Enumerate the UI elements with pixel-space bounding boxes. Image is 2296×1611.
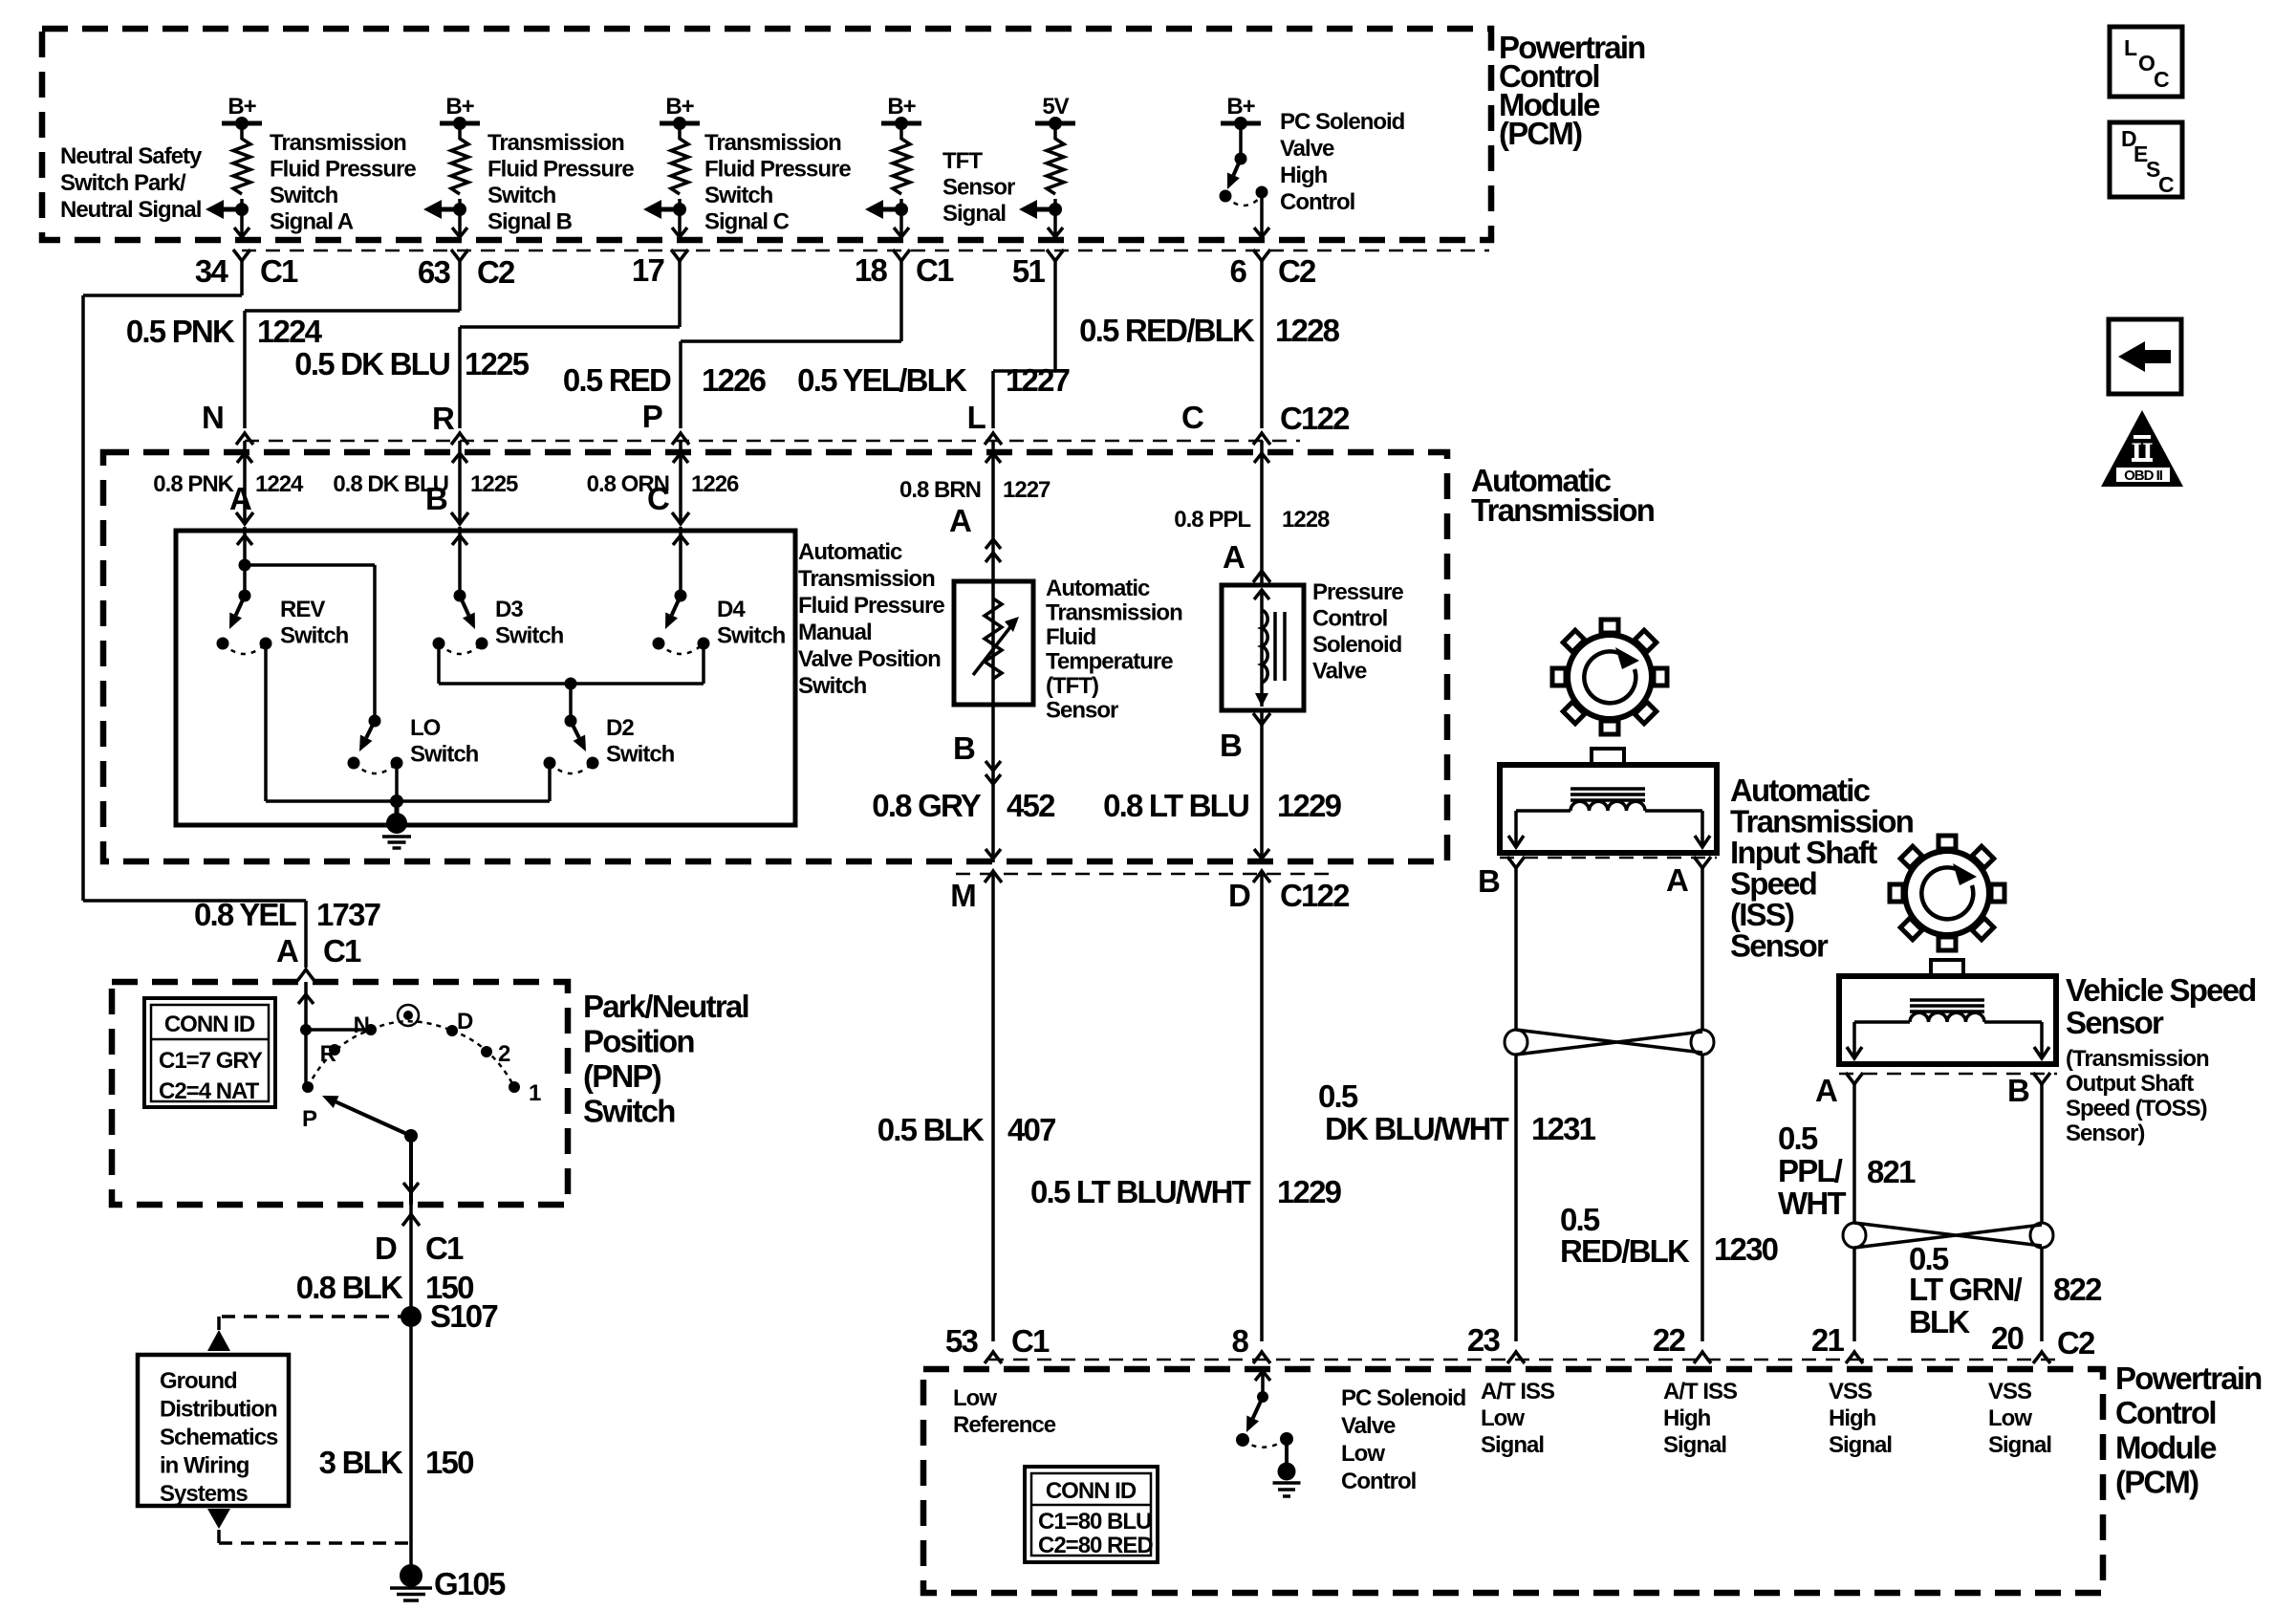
svg-text:0.5 RED/BLK: 0.5 RED/BLK	[1079, 313, 1255, 348]
svg-text:A: A	[1666, 862, 1688, 898]
svg-text:A: A	[229, 481, 251, 516]
svg-text:3 BLK: 3 BLK	[319, 1445, 403, 1480]
svg-text:Park/Neutral: Park/Neutral	[583, 989, 748, 1024]
svg-text:Low: Low	[1481, 1405, 1525, 1431]
svg-text:G105: G105	[434, 1566, 506, 1601]
svg-text:PC Solenoid: PC Solenoid	[1341, 1385, 1466, 1411]
svg-text:C: C	[647, 481, 669, 516]
svg-text:Signal: Signal	[1481, 1432, 1544, 1458]
svg-text:18: 18	[855, 252, 888, 288]
svg-text:C2: C2	[477, 254, 515, 290]
svg-text:TFT: TFT	[942, 148, 983, 174]
svg-text:0.5 RED: 0.5 RED	[563, 362, 671, 398]
svg-text:CONN ID: CONN ID	[164, 1012, 255, 1037]
svg-text:2: 2	[498, 1041, 510, 1067]
svg-text:Switch: Switch	[280, 623, 349, 649]
svg-text:Position: Position	[583, 1024, 694, 1059]
svg-text:Fluid Pressure: Fluid Pressure	[270, 157, 416, 183]
svg-text:1227: 1227	[1003, 477, 1051, 503]
svg-text:Manual: Manual	[798, 620, 872, 645]
svg-text:0.8 PNK: 0.8 PNK	[153, 471, 234, 497]
svg-text:Automatic: Automatic	[798, 539, 902, 565]
svg-text:Signal B: Signal B	[487, 209, 573, 235]
svg-text:Signal C: Signal C	[704, 209, 790, 235]
svg-text:B: B	[2007, 1073, 2029, 1108]
svg-text:452: 452	[1007, 788, 1055, 823]
svg-text:in Wiring: in Wiring	[160, 1453, 249, 1479]
svg-text:0.8 YEL: 0.8 YEL	[194, 897, 297, 932]
svg-text:LO: LO	[410, 715, 441, 741]
svg-text:Switch: Switch	[798, 673, 867, 699]
svg-text:Low: Low	[953, 1385, 997, 1411]
svg-text:PPL/: PPL/	[1778, 1153, 1843, 1188]
svg-text:17: 17	[632, 252, 664, 288]
svg-text:Control: Control	[2115, 1395, 2216, 1430]
svg-text:Systems: Systems	[160, 1481, 248, 1507]
svg-text:Input Shaft: Input Shaft	[1730, 835, 1877, 870]
svg-text:Solenoid: Solenoid	[1312, 632, 1402, 658]
svg-text:21: 21	[1811, 1322, 1845, 1358]
svg-text:C2=4 NAT: C2=4 NAT	[159, 1078, 260, 1104]
svg-text:5V: 5V	[1042, 94, 1069, 120]
svg-text:C1: C1	[1011, 1323, 1050, 1359]
svg-text:Transmission: Transmission	[487, 130, 624, 156]
svg-text:D: D	[1228, 878, 1250, 913]
svg-text:C1=80 BLU: C1=80 BLU	[1038, 1509, 1151, 1535]
svg-text:C1: C1	[260, 253, 298, 289]
svg-text:Signal: Signal	[1829, 1432, 1892, 1458]
svg-text:Switch: Switch	[606, 742, 675, 768]
svg-text:C2=80 RED: C2=80 RED	[1038, 1533, 1153, 1558]
svg-text:CONN ID: CONN ID	[1046, 1478, 1137, 1504]
svg-text:0.5 DK BLU: 0.5 DK BLU	[294, 346, 449, 381]
svg-text:0.5 BLK: 0.5 BLK	[877, 1112, 985, 1147]
svg-text:1231: 1231	[1531, 1111, 1596, 1146]
svg-text:Switch: Switch	[270, 183, 338, 208]
svg-text:Pressure: Pressure	[1312, 579, 1403, 605]
svg-text:Sensor: Sensor	[1046, 698, 1118, 724]
svg-text:B: B	[1220, 728, 1242, 763]
svg-text:C122: C122	[1280, 401, 1350, 436]
svg-text:(PCM): (PCM)	[1499, 116, 1582, 151]
svg-text:Schematics: Schematics	[160, 1425, 278, 1450]
svg-text:C1=7 GRY: C1=7 GRY	[159, 1048, 263, 1074]
svg-text:1226: 1226	[702, 362, 767, 398]
svg-text:A: A	[949, 503, 971, 538]
svg-text:OBD II: OBD II	[2124, 468, 2163, 484]
svg-text:DK BLU/WHT: DK BLU/WHT	[1325, 1111, 1509, 1146]
svg-text:Fluid: Fluid	[1046, 624, 1096, 650]
svg-text:0.5 PNK: 0.5 PNK	[126, 314, 235, 349]
svg-text:C122: C122	[1280, 878, 1350, 913]
svg-text:Sensor: Sensor	[942, 175, 1015, 201]
svg-text:1226: 1226	[691, 471, 739, 497]
svg-text:P: P	[642, 399, 662, 434]
svg-text:WHT: WHT	[1778, 1186, 1846, 1221]
svg-text:Signal: Signal	[1988, 1432, 2051, 1458]
svg-text:LT GRN/: LT GRN/	[1909, 1272, 2023, 1307]
svg-text:Distribution: Distribution	[160, 1397, 277, 1423]
svg-text:C1: C1	[323, 933, 361, 969]
svg-text:D2: D2	[606, 715, 634, 741]
svg-text:Transmission: Transmission	[270, 130, 406, 156]
svg-text:D: D	[457, 1009, 473, 1034]
svg-text:S107: S107	[430, 1298, 497, 1334]
svg-text:Switch: Switch	[495, 623, 564, 649]
svg-text:Switch Park/: Switch Park/	[60, 170, 186, 196]
svg-text:Powertrain: Powertrain	[2115, 1361, 2262, 1396]
svg-text:C: C	[2154, 67, 2169, 92]
svg-text:A: A	[1223, 539, 1245, 575]
svg-text:Transmission: Transmission	[1046, 600, 1182, 626]
svg-text:Neutral Safety: Neutral Safety	[60, 143, 203, 169]
svg-text:Transmission: Transmission	[1471, 492, 1655, 528]
svg-text:0.5: 0.5	[1560, 1202, 1600, 1237]
svg-text:Low: Low	[1341, 1441, 1385, 1467]
svg-text:Neutral Signal: Neutral Signal	[60, 197, 201, 223]
svg-text:0.5 YEL/BLK: 0.5 YEL/BLK	[797, 362, 967, 398]
svg-text:0.5 LT BLU/WHT: 0.5 LT BLU/WHT	[1030, 1174, 1251, 1209]
svg-text:1737: 1737	[316, 897, 380, 932]
svg-text:B+: B+	[887, 94, 916, 120]
svg-text:R: R	[432, 401, 455, 436]
svg-text:1228: 1228	[1275, 313, 1340, 348]
svg-text:High: High	[1280, 163, 1328, 188]
svg-text:Speed (TOSS): Speed (TOSS)	[2066, 1096, 2207, 1121]
svg-text:Fluid Pressure: Fluid Pressure	[487, 157, 634, 183]
svg-text:Fluid Pressure: Fluid Pressure	[798, 593, 944, 619]
svg-text:O: O	[2138, 51, 2155, 76]
svg-text:Valve: Valve	[1312, 659, 1367, 685]
svg-text:Automatic: Automatic	[1730, 773, 1871, 808]
svg-text:D: D	[375, 1230, 397, 1266]
svg-text:B+: B+	[665, 94, 694, 120]
svg-text:0.8 LT BLU: 0.8 LT BLU	[1103, 788, 1248, 823]
svg-text:0.8 GRY: 0.8 GRY	[872, 788, 982, 823]
svg-text:0.5: 0.5	[1318, 1078, 1358, 1114]
svg-text:Transmission: Transmission	[704, 130, 841, 156]
svg-text:Signal A: Signal A	[270, 209, 354, 235]
svg-text:Module: Module	[2115, 1429, 2217, 1465]
svg-text:Switch: Switch	[487, 183, 556, 208]
svg-text:II: II	[2131, 437, 2153, 468]
svg-text:A: A	[276, 933, 298, 969]
svg-text:Transmission: Transmission	[798, 566, 935, 592]
svg-text:Switch: Switch	[410, 742, 479, 768]
svg-text:1228: 1228	[1282, 507, 1330, 533]
svg-text:Reference: Reference	[953, 1412, 1056, 1438]
svg-text:1224: 1224	[257, 314, 323, 349]
svg-text:Control: Control	[1341, 1469, 1416, 1494]
svg-text:23: 23	[1467, 1322, 1501, 1358]
svg-text:Fluid Pressure: Fluid Pressure	[704, 157, 851, 183]
svg-text:A/T ISS: A/T ISS	[1663, 1379, 1738, 1404]
svg-text:0.5: 0.5	[1778, 1121, 1818, 1156]
svg-text:Sensor): Sensor)	[2066, 1121, 2144, 1146]
svg-text:RED/BLK: RED/BLK	[1560, 1233, 1690, 1269]
svg-text:Automatic: Automatic	[1046, 576, 1150, 601]
svg-text:D4: D4	[717, 597, 746, 622]
svg-text:0.8 BLK: 0.8 BLK	[296, 1270, 403, 1305]
svg-text:(Transmission: (Transmission	[2066, 1046, 2209, 1072]
svg-text:51: 51	[1012, 253, 1046, 289]
svg-text:(ISS): (ISS)	[1730, 897, 1794, 932]
svg-text:VSS: VSS	[1988, 1379, 2032, 1404]
svg-text:VSS: VSS	[1829, 1379, 1873, 1404]
svg-text:1225: 1225	[465, 346, 530, 381]
svg-text:C: C	[2158, 172, 2174, 197]
svg-text:1229: 1229	[1277, 1174, 1342, 1209]
svg-text:C1: C1	[425, 1230, 464, 1266]
svg-text:N: N	[354, 1012, 369, 1038]
svg-text:Control: Control	[1312, 606, 1387, 632]
svg-text:Switch: Switch	[717, 623, 786, 649]
svg-text:1224: 1224	[255, 471, 304, 497]
svg-text:(PCM): (PCM)	[2115, 1465, 2199, 1500]
svg-text:1227: 1227	[1006, 362, 1070, 398]
svg-text:Sensor: Sensor	[2066, 1005, 2164, 1040]
svg-text:63: 63	[418, 254, 451, 290]
svg-text:20: 20	[1991, 1320, 2024, 1356]
svg-text:Vehicle Speed: Vehicle Speed	[2066, 972, 2256, 1008]
svg-text:P: P	[302, 1106, 317, 1132]
svg-text:High: High	[1829, 1405, 1876, 1431]
svg-text:BLK: BLK	[1909, 1304, 1970, 1339]
svg-text:R: R	[320, 1041, 336, 1067]
svg-text:B+: B+	[227, 94, 256, 120]
svg-text:M: M	[950, 878, 975, 913]
svg-text:1229: 1229	[1277, 788, 1342, 823]
svg-text:B: B	[953, 730, 975, 766]
svg-text:Valve Position: Valve Position	[798, 646, 941, 672]
svg-text:Sensor: Sensor	[1730, 928, 1829, 964]
svg-text:L: L	[2124, 35, 2137, 60]
svg-text:8: 8	[1231, 1323, 1248, 1359]
svg-text:Switch: Switch	[583, 1094, 675, 1129]
svg-text:1230: 1230	[1714, 1231, 1778, 1267]
svg-text:Switch: Switch	[704, 183, 773, 208]
svg-text:53: 53	[945, 1323, 979, 1359]
svg-text:822: 822	[2053, 1272, 2102, 1307]
svg-text:821: 821	[1867, 1154, 1916, 1189]
svg-text:C2: C2	[1278, 253, 1316, 289]
svg-text:High: High	[1663, 1405, 1711, 1431]
svg-text:Transmission: Transmission	[1730, 804, 1914, 839]
svg-text:22: 22	[1653, 1322, 1686, 1358]
svg-text:(TFT): (TFT)	[1046, 673, 1098, 699]
svg-text:Output Shaft: Output Shaft	[2066, 1071, 2194, 1097]
svg-text:Speed: Speed	[1730, 866, 1816, 902]
svg-text:C: C	[1181, 400, 1203, 435]
svg-text:REV: REV	[280, 597, 325, 622]
svg-text:D3: D3	[495, 597, 523, 622]
svg-text:L: L	[967, 400, 986, 435]
svg-text:(PNP): (PNP)	[583, 1058, 661, 1094]
svg-text:407: 407	[1007, 1112, 1055, 1147]
svg-text:Control: Control	[1280, 189, 1354, 215]
svg-text:Ground: Ground	[160, 1368, 237, 1394]
svg-text:B: B	[425, 481, 447, 516]
svg-text:A: A	[1815, 1073, 1837, 1108]
svg-text:1225: 1225	[470, 471, 518, 497]
svg-text:N: N	[202, 400, 223, 435]
svg-text:0.8 BRN: 0.8 BRN	[899, 477, 981, 503]
svg-text:Temperature: Temperature	[1046, 649, 1173, 675]
svg-text:Valve: Valve	[1280, 136, 1334, 162]
svg-text:C2: C2	[2057, 1325, 2095, 1361]
svg-text:B: B	[1478, 863, 1500, 899]
svg-text:A/T ISS: A/T ISS	[1481, 1379, 1555, 1404]
svg-text:Signal: Signal	[942, 201, 1006, 227]
svg-text:1: 1	[529, 1080, 541, 1106]
svg-text:150: 150	[425, 1445, 473, 1480]
svg-text:6: 6	[1229, 253, 1246, 289]
svg-text:34: 34	[195, 253, 229, 289]
svg-text:0.8 PPL: 0.8 PPL	[1174, 507, 1250, 533]
svg-text:Low: Low	[1988, 1405, 2032, 1431]
svg-text:Valve: Valve	[1341, 1413, 1396, 1439]
svg-text:B+: B+	[1226, 94, 1255, 120]
svg-text:PC Solenoid: PC Solenoid	[1280, 109, 1405, 135]
svg-text:C1: C1	[916, 252, 954, 288]
svg-text:Signal: Signal	[1663, 1432, 1726, 1458]
svg-text:B+: B+	[445, 94, 474, 120]
